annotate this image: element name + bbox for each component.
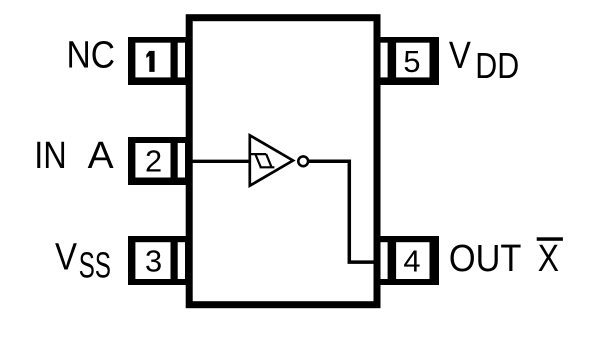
inversion bubble [298,156,308,166]
pin 4 [374,236,440,285]
svg-text:2: 2 [145,144,162,179]
svg-text:3: 3 [145,244,162,279]
svg-text:NC: NC [67,34,116,77]
Schmitt inverter triangle U1 [250,135,293,185]
svg-text:DD: DD [475,45,519,86]
svg-text:V: V [55,236,77,279]
svg-text:V: V [449,34,471,77]
pin number 1 [146,51,154,72]
svg-text:X: X [538,237,559,280]
svg-text:OUT: OUT [449,237,522,280]
pin 3 [128,236,194,285]
svg-text:A: A [88,134,114,177]
IC body U1 [189,18,377,305]
svg-text:IN: IN [34,134,66,177]
pin 1 [128,37,194,85]
pin 5 [374,37,440,85]
pin 2 [128,137,194,185]
hysteresis symbol inside inverter [250,154,274,167]
svg-text:5: 5 [403,44,420,79]
svg-text:4: 4 [403,244,420,279]
wire from pin 2 to inverter input [192,160,250,163]
overline over X [537,237,563,241]
svg-text:SS: SS [79,245,111,286]
wire from bubble to pin 4 [309,161,375,262]
